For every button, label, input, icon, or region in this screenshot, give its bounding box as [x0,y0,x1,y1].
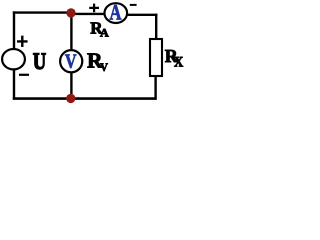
ammeter A circle [105,3,128,23]
wire left vertical (source U to bottom rail) [13,70,15,100]
resistor R_X box [150,39,162,76]
wire top-left horizontal rail [13,11,71,13]
node junction dot bottom [66,94,75,103]
wire left vertical (top rail to source U) [13,11,15,48]
wire ammeter to right corner [128,14,158,16]
voltage source U circle [2,49,25,69]
voltage source minus sign [19,74,29,76]
svg-text:A: A [100,26,109,40]
ammeter minus sign [130,4,137,6]
node junction dot top [66,8,75,17]
wire voltmeter top lead [70,14,72,51]
voltmeter V circle [60,50,82,72]
ammeter plus sign [89,4,99,13]
wire voltmeter bottom lead [70,73,72,99]
wire bottom rail [13,97,156,100]
svg-text:A: A [110,1,122,25]
svg-text:X: X [174,55,183,71]
wire right vertical (resistor to bottom rail) [154,76,156,100]
wire top rail between node and ammeter [70,13,105,15]
voltage source plus sign [17,36,28,47]
svg-text:V: V [65,50,77,72]
svg-text:U: U [33,48,46,75]
svg-text:V: V [100,61,108,74]
wire right vertical (top corner to resistor) [155,14,157,40]
